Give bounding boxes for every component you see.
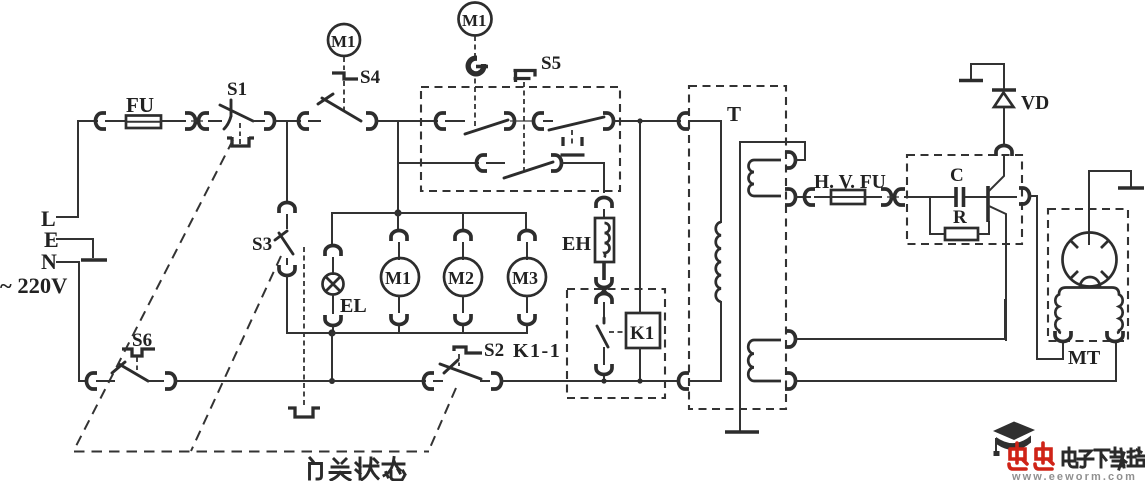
wire M2 to bus — [462, 296, 464, 333]
wire EL drop — [331, 213, 333, 243]
wire arc to core link — [795, 159, 805, 161]
wire blade to connector — [481, 379, 489, 381]
connector arc (right of S4) — [366, 113, 377, 129]
node dot K1 branch bottom — [637, 378, 642, 383]
connector arc (M2 top) — [455, 231, 471, 241]
mechanical link S5 — [523, 82, 525, 172]
svg-text:MT: MT — [1068, 347, 1101, 369]
connector arc (left of S2) — [424, 373, 435, 389]
wire bus to bottom line — [331, 333, 333, 381]
connector arc (MT filament right) — [1107, 331, 1123, 342]
switch contact row1-a — [465, 120, 508, 134]
wire blade to connector — [253, 120, 264, 122]
wire node to VD — [989, 157, 1004, 191]
switch S6 — [112, 330, 152, 381]
wire stub — [97, 380, 114, 382]
connector arc (row2 left) — [477, 155, 488, 171]
mechanical link S3 to door — [303, 247, 305, 406]
lamp EL — [323, 274, 367, 318]
connector arc (EL top) — [325, 246, 341, 256]
switch S4 — [318, 94, 361, 121]
door-status dashed diagonal from S3 — [191, 256, 281, 451]
wire L to main line — [57, 121, 78, 217]
connector arc (S3 top) — [279, 203, 295, 214]
latch bracket S5 — [514, 69, 536, 82]
node dot K1 branch — [637, 118, 642, 123]
svg-text:S3: S3 — [252, 234, 272, 255]
connector arc (EL bottom) — [325, 315, 341, 326]
door hook bracket S2 — [454, 347, 482, 366]
timer cam — [466, 51, 490, 77]
wire stub S3 — [286, 215, 288, 228]
wire stub — [398, 243, 400, 259]
node junction S3 branch — [286, 121, 288, 200]
wire antenna to case — [1089, 171, 1131, 244]
transformer T dashed box — [689, 86, 786, 409]
wire stub — [603, 348, 605, 364]
wire stub to FU — [106, 120, 126, 122]
connector arc (row1 right) — [603, 113, 614, 129]
latch bracket (row1-b) — [561, 130, 585, 155]
relay K1 coil box — [626, 313, 660, 348]
mechanical link M1-S4 — [343, 57, 345, 70]
wire filament to H.V.FU — [795, 196, 810, 198]
wire stub — [309, 120, 320, 122]
connector arc (right of S1) — [264, 113, 275, 129]
magnetron MT dashed box — [1048, 209, 1128, 341]
heater EH — [562, 218, 614, 262]
wire FU to connector — [161, 120, 185, 122]
svg-text:M1: M1 — [462, 11, 487, 30]
motor bus bottom — [332, 332, 527, 334]
svg-text:S2: S2 — [484, 340, 504, 361]
svg-text:S4: S4 — [360, 67, 381, 88]
door hook bracket S4 — [332, 73, 358, 79]
mechanical link bracket to blade — [343, 81, 345, 111]
connector arc (HV top) — [785, 331, 796, 347]
wire stub — [487, 162, 504, 164]
connector arc (MT filament left) — [1055, 331, 1071, 342]
wire main line to K1 — [639, 121, 641, 313]
motor M3 (stirrer) — [508, 258, 546, 296]
wire HV top to doubler — [795, 300, 1005, 339]
motor M1 (turntable, top left) — [328, 24, 360, 56]
resistor R branch — [930, 197, 989, 240]
connector arc (HV bottom) — [785, 373, 796, 389]
wire primary top — [689, 121, 721, 222]
wire to relay contact — [603, 303, 605, 320]
door hook bracket of S1 — [227, 137, 254, 146]
wire M2 drop — [462, 213, 464, 230]
connector arc (row2 right) — [551, 155, 562, 171]
wire E to earth — [57, 239, 93, 257]
wire junction down to motor bus — [397, 121, 399, 213]
door hook bracket (S3) — [288, 408, 320, 417]
wire node to output arc — [990, 196, 1016, 198]
node dot at motor bus — [394, 209, 401, 216]
HV winding of T — [748, 340, 781, 381]
wire core to ground — [739, 142, 741, 431]
fuse H.V.FU — [831, 190, 865, 204]
wire stub — [434, 380, 442, 382]
primary winding of T — [716, 222, 721, 302]
mechanical link S6 — [136, 357, 138, 370]
capacitor/resistor dashed box — [907, 155, 1022, 244]
wire to S4 section — [274, 120, 300, 122]
connector arc (T primary top entry) — [679, 113, 689, 129]
svg-text:T: T — [727, 102, 741, 126]
switch contact row2 — [504, 162, 553, 178]
motor bus top — [332, 212, 526, 214]
connector arc (left of S6) — [87, 373, 98, 389]
wire to interlock box — [376, 120, 437, 122]
wire stub — [544, 120, 552, 122]
svg-text:EL: EL — [340, 295, 367, 317]
svg-text:M1: M1 — [331, 32, 356, 51]
svg-text:N: N — [41, 249, 57, 274]
wire stub EH — [603, 210, 605, 218]
connector arc (row1 left) — [436, 113, 447, 129]
wire stub to S1 — [209, 120, 221, 122]
filament heater block of MT — [1055, 288, 1122, 334]
diode VD — [992, 90, 1049, 114]
connector arc (M3 bottom) — [519, 314, 535, 325]
wire row2 to EH drop — [561, 163, 604, 192]
connector arc (VD entry) — [996, 146, 1012, 156]
wire S3 to bus — [287, 259, 332, 333]
svg-text:EH: EH — [562, 233, 591, 255]
node bar of doubler — [986, 186, 990, 222]
wire core top link — [740, 142, 805, 158]
connector arc (right of S6) — [165, 373, 176, 389]
svg-text:S1: S1 — [227, 79, 247, 100]
connector arc (right of S2) — [491, 373, 502, 389]
connector arc (EH top) — [596, 198, 612, 208]
bottom line left segment — [79, 380, 87, 382]
wire stub — [446, 120, 464, 122]
door hook bracket S6 — [122, 349, 155, 356]
relay contact K1 — [597, 318, 626, 347]
svg-text:K1: K1 — [630, 323, 654, 344]
door-status dashed baseline — [74, 451, 429, 453]
svg-text:C: C — [950, 165, 964, 186]
switch S2 — [440, 340, 504, 379]
connector arc (left of FU) — [96, 113, 106, 129]
wire row2 — [398, 162, 478, 164]
wire into box — [905, 196, 954, 198]
wire K1 to bottom line — [639, 348, 641, 381]
connector arc (left of HV fuse) — [805, 189, 816, 205]
connector arc (filament bottom) — [785, 189, 796, 205]
svg-text:M1: M1 — [385, 268, 411, 288]
wire M1 drop — [397, 213, 399, 230]
capacitor C — [956, 187, 964, 207]
switch S1 (door interlock) — [220, 79, 253, 136]
wire VD to box — [1003, 107, 1005, 146]
connector arc (M1 bottom) — [391, 314, 407, 325]
connector pair (HV fuse to capacitor box) — [881, 189, 905, 205]
wire VD top case — [971, 64, 1004, 88]
ground (earth bar of E) — [81, 258, 107, 262]
connector arc (filament top) — [785, 152, 796, 168]
connector pair (after FU) — [185, 113, 209, 129]
switch contact row1-b — [549, 117, 604, 130]
door-status dashed diagonal from S2 — [429, 388, 456, 450]
wire M3 drop — [525, 213, 527, 230]
motor M1 (fan) — [381, 258, 419, 296]
connector pair row1 middle — [504, 113, 544, 129]
wire stub — [332, 258, 334, 274]
label 门关状态 (door closed state) — [310, 458, 406, 481]
wire EL to bus — [332, 295, 334, 333]
motor M1 (timer, top middle) — [459, 3, 492, 36]
svg-text:FU: FU — [126, 93, 154, 117]
wire fuse to connector pair — [865, 196, 881, 198]
case plate (above VD) — [959, 79, 983, 83]
svg-text:VD: VD — [1021, 93, 1049, 114]
connector arc (S3 bottom) — [279, 265, 295, 276]
connector arc (M3 top) — [519, 231, 535, 241]
connector arc (contact bottom) — [596, 364, 612, 375]
wire row1 to T — [613, 120, 680, 122]
K1 dashed enclosure — [567, 289, 665, 398]
connector arc (M1 top) — [391, 231, 407, 241]
connector arc (doubler output) — [1019, 188, 1030, 204]
switch S3 — [252, 231, 293, 255]
wire stub — [815, 196, 831, 198]
door-status dashed diagonal from S1 — [74, 140, 233, 450]
ground (T core) — [725, 430, 759, 434]
wire HV bottom to MT — [795, 344, 1116, 381]
svg-text:R: R — [953, 207, 967, 228]
bottom line to S2 — [175, 380, 425, 382]
wire blade to connector — [148, 380, 163, 382]
case plate (waveguide) — [1118, 186, 1144, 190]
fuse FU — [126, 93, 161, 128]
node dot bottom — [329, 378, 335, 384]
connector arc (left of S4) — [299, 113, 309, 129]
svg-text:www.eeworm.com: www.eeworm.com — [1011, 471, 1137, 481]
node dot EL junction — [328, 329, 335, 336]
logo graduation cap — [993, 422, 1035, 457]
wire stub — [462, 243, 464, 259]
connector arc (T primary bottom entry) — [679, 373, 689, 389]
logo 电子下载站 — [1063, 448, 1144, 469]
filament winding of T — [749, 160, 782, 196]
connector arc (M2 bottom) — [455, 314, 471, 325]
mechanical link timer shaft — [474, 36, 476, 129]
motor M2 (turntable) — [444, 258, 482, 296]
svg-text:S5: S5 — [541, 53, 561, 74]
magnetron tube MT — [1063, 233, 1117, 288]
interlock dashed box — [421, 87, 620, 191]
wire output to MT cathode — [1029, 196, 1063, 359]
svg-text:M2: M2 — [448, 268, 474, 288]
wire primary bottom — [690, 302, 721, 381]
thermostat connector pair — [596, 277, 612, 304]
bottom line to T — [501, 380, 679, 382]
node dot EH branch — [601, 378, 606, 383]
wire C to node — [966, 196, 986, 198]
wire M1 to bus — [398, 296, 400, 333]
wire M3 to bus — [526, 296, 528, 333]
wire to bottom line — [603, 377, 605, 381]
wire node to HV top — [989, 206, 1006, 340]
svg-text:K1-1: K1-1 — [513, 340, 561, 362]
svg-text:~ 220V: ~ 220V — [0, 273, 67, 298]
wire main line start — [78, 120, 97, 122]
wire EH to thermostat — [602, 263, 606, 280]
wire N down to bottom line — [57, 262, 79, 381]
logo 虫虫 (red) — [1009, 443, 1053, 469]
svg-text:M3: M3 — [512, 268, 538, 288]
wire stub — [526, 243, 528, 259]
